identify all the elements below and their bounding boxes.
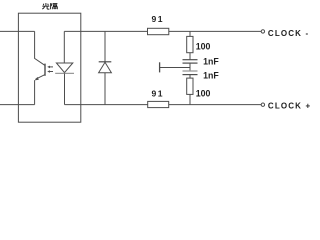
optocoupler box U1 (18, 13, 80, 122)
ground bar terminal (159, 62, 161, 72)
transistor Q1 emitter arrowhead (35, 77, 39, 81)
light arrow 2 (49, 71, 53, 73)
wire LED anode (63, 31, 65, 63)
capacitor C1 plate 1 (183, 59, 198, 61)
svg-text:1nF: 1nF (203, 70, 219, 80)
capacitor C1 plate 2 (183, 62, 198, 64)
capacitor C2 plate 2 (183, 74, 198, 76)
svg-text:CLOCK +: CLOCK + (268, 101, 311, 110)
wire diode vertical (104, 31, 106, 104)
label 光 (optical) (42, 3, 49, 9)
svg-text:100: 100 (196, 42, 211, 52)
svg-text:100: 100 (196, 89, 211, 99)
label 隔 (isolation) (51, 3, 58, 9)
wire midpoint tap (160, 67, 190, 69)
resistor R1 91 top body (148, 28, 169, 34)
wire collector vertical (35, 31, 45, 65)
terminal CLOCK+ circle (261, 103, 264, 106)
wire RC chain vertical (189, 31, 191, 104)
wire bottom-left stub (emitter to external) (0, 104, 35, 106)
terminal CLOCK- circle (261, 30, 264, 33)
svg-text:91: 91 (152, 14, 165, 24)
transistor Q1 base bar (44, 64, 46, 76)
svg-text:CLOCK -: CLOCK - (268, 29, 309, 38)
resistor R2 91 bottom body (148, 101, 169, 107)
svg-text:91: 91 (152, 89, 165, 99)
wire bottom rail (65, 104, 262, 106)
transistor Q1 emitter (36, 75, 45, 80)
capacitor C2 plate 1 (183, 70, 198, 72)
wire emitter vertical (34, 80, 36, 104)
wire top rail (64, 30, 261, 32)
resistor R3 100 top body (187, 36, 193, 52)
wire top-left stub (collector to external) (0, 30, 35, 32)
diode D2 triangle (99, 62, 112, 72)
LED D1 cathode bar (55, 72, 74, 74)
resistor R4 100 bottom body (187, 78, 193, 94)
LED D1 triangle (56, 63, 72, 73)
wire LED cathode (64, 73, 66, 104)
svg-text:1nF: 1nF (203, 57, 219, 67)
light arrow 1 (49, 66, 53, 68)
diode D2 cathode bar (99, 61, 112, 63)
